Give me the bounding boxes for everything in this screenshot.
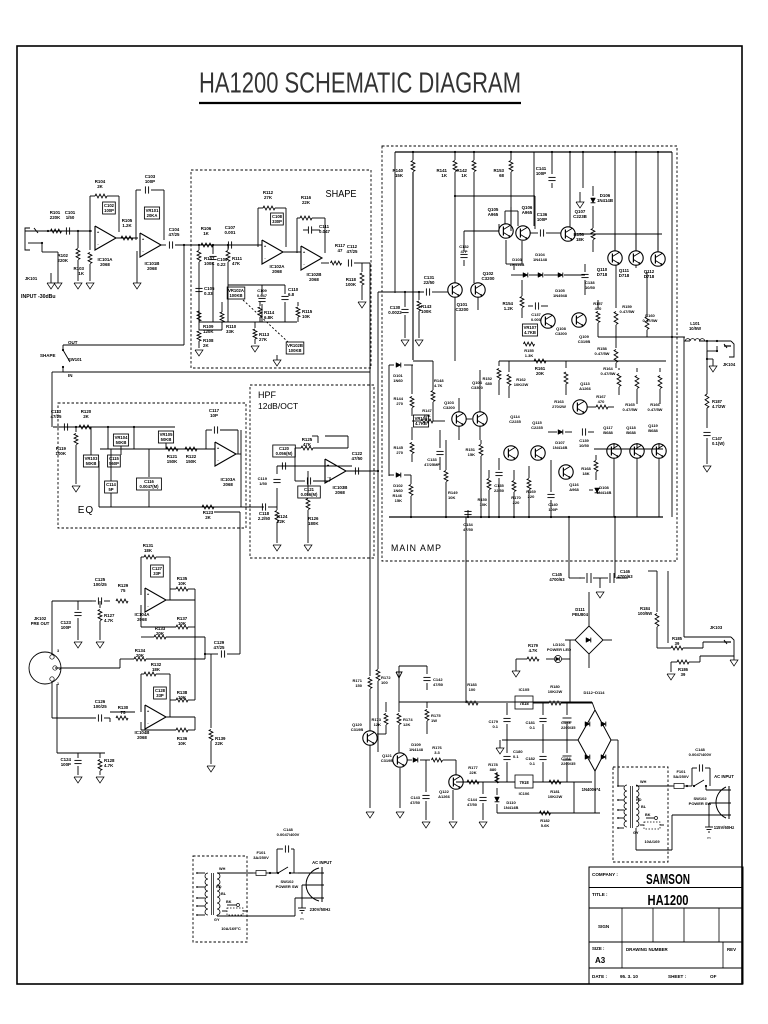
capacitor C146 4700/63 xyxy=(609,573,611,583)
wire xyxy=(465,517,467,703)
transistor Q101 C3200 xyxy=(448,283,462,297)
potentiometer VR106 4.7KB xyxy=(413,415,428,427)
ground xyxy=(133,283,141,289)
svg-text:0.47/5W: 0.47/5W xyxy=(623,407,638,412)
svg-text:2K: 2K xyxy=(97,184,103,189)
diode D105 1N4148 xyxy=(558,273,563,278)
svg-text:22K: 22K xyxy=(215,741,224,746)
bridge rectifier 1N4006*4 xyxy=(578,710,611,771)
svg-text:1N414B: 1N414B xyxy=(510,262,525,267)
svg-text:47/50: 47/50 xyxy=(463,527,474,532)
wire xyxy=(321,262,329,264)
capacitor C111 0.047 xyxy=(307,226,309,233)
svg-text:AC INPUT: AC INPUT xyxy=(714,774,734,779)
svg-text:2200/35: 2200/35 xyxy=(561,761,576,766)
wire xyxy=(161,244,166,246)
transistor Q107 C223B xyxy=(561,227,575,241)
resistor R120 2K xyxy=(79,425,91,429)
svg-text:BK: BK xyxy=(645,813,651,817)
svg-text:5A/250V: 5A/250V xyxy=(673,774,689,779)
title block row company SAMSON xyxy=(589,887,743,889)
svg-text:TITLE :: TITLE : xyxy=(592,892,608,897)
capacitor C122 47/50 xyxy=(354,467,356,474)
svg-text:C223B: C223B xyxy=(573,214,587,219)
svg-text:15K: 15K xyxy=(468,452,475,457)
resistor R143 100K xyxy=(418,292,420,300)
svg-text:HPF: HPF xyxy=(258,390,277,400)
svg-text:220K: 220K xyxy=(58,258,69,263)
resistor R159 0.47/5W xyxy=(615,265,617,308)
svg-text:47P: 47P xyxy=(460,249,467,254)
wire xyxy=(48,230,92,232)
svg-text:A965: A965 xyxy=(522,210,533,215)
svg-text:47/25MF: 47/25MF xyxy=(424,462,440,467)
svg-text:3: 3 xyxy=(57,649,59,653)
svg-text:A1266: A1266 xyxy=(579,386,592,391)
svg-text:0.47/5W: 0.47/5W xyxy=(643,318,658,323)
transistor Q116 A968 xyxy=(559,465,573,479)
svg-text:SIGN: SIGN xyxy=(598,924,610,929)
svg-text:A968: A968 xyxy=(569,487,579,492)
svg-text:4.7K: 4.7K xyxy=(104,618,114,623)
capacitor C132 47P xyxy=(460,253,467,255)
svg-text:0.0047/400V: 0.0047/400V xyxy=(277,832,300,837)
ground xyxy=(74,642,82,648)
ground xyxy=(730,660,738,666)
svg-text:C3200: C3200 xyxy=(456,307,469,312)
svg-text:100/5W: 100/5W xyxy=(638,611,652,616)
resistor R129 75 xyxy=(116,599,128,603)
resistor R132 18K feedback xyxy=(140,674,142,712)
svg-text:1N4148: 1N4148 xyxy=(409,747,424,752)
capacitor C107 0.001 xyxy=(227,241,229,248)
resistor R107 100K xyxy=(198,245,200,250)
capacitor C110 6.8 xyxy=(284,285,286,294)
svg-text:22/50: 22/50 xyxy=(494,488,505,493)
ground xyxy=(273,360,281,366)
wire xyxy=(98,461,100,507)
svg-text:SW101: SW101 xyxy=(68,357,82,362)
svg-text:10/50: 10/50 xyxy=(585,285,596,290)
svg-text:1/50: 1/50 xyxy=(66,215,75,220)
svg-text:270/2W: 270/2W xyxy=(552,404,566,409)
svg-text:POWER SW: POWER SW xyxy=(689,801,712,806)
svg-text:27K: 27K xyxy=(259,337,268,342)
op-amp IC102A 2068 xyxy=(262,240,283,264)
capacitor C101 1/50 xyxy=(65,227,67,234)
svg-text:RD: RD xyxy=(216,885,222,889)
resistor R121 150K xyxy=(166,447,178,451)
svg-text:20K: 20K xyxy=(136,653,145,658)
svg-text:3.3: 3.3 xyxy=(434,750,440,755)
ground xyxy=(479,822,487,828)
svg-text:10/5W: 10/5W xyxy=(689,326,701,331)
svg-text:6.8: 6.8 xyxy=(288,292,295,297)
resistor R105 1.2K xyxy=(121,236,133,240)
svg-text:D718: D718 xyxy=(644,274,655,279)
resistor R142 1K xyxy=(473,152,475,160)
svg-text:0.33: 0.33 xyxy=(204,291,213,296)
resistor R127 4.7K xyxy=(99,601,101,608)
svg-text:10K/2W: 10K/2W xyxy=(548,689,563,694)
resistor R136 10K xyxy=(176,728,188,732)
capacitor C116 0.0047(M) xyxy=(137,478,162,490)
wire xyxy=(614,152,616,251)
svg-text:115V/60Hz: 115V/60Hz xyxy=(714,825,735,830)
ground xyxy=(512,671,520,677)
resistor R181 10K/2W xyxy=(549,780,561,784)
jack JK103 xyxy=(729,637,734,656)
wire xyxy=(671,152,673,517)
svg-text:BL: BL xyxy=(641,805,647,809)
svg-text:4.7K: 4.7K xyxy=(529,648,538,653)
transistor Q112 D718 xyxy=(651,252,665,266)
resistor R158 0.47/5W xyxy=(615,337,617,348)
wire xyxy=(667,571,669,643)
op-amp IC101B 2068 xyxy=(140,233,161,257)
svg-text:A3: A3 xyxy=(595,956,606,965)
transistor Q115 C2235 xyxy=(531,446,545,460)
title block row size / drawing number / rev xyxy=(589,967,743,969)
title block row sign xyxy=(589,941,743,943)
wire xyxy=(110,449,112,481)
svg-text:2068: 2068 xyxy=(100,262,110,267)
svg-text:AC INPUT: AC INPUT xyxy=(312,860,332,865)
op-amp IC103B 2068 xyxy=(325,459,346,483)
svg-text:880: 880 xyxy=(490,767,497,772)
resistor R133 20K xyxy=(154,635,166,639)
resistor R148 4.7K xyxy=(432,361,434,390)
svg-text:47/50: 47/50 xyxy=(352,456,364,461)
svg-text:0.47/5W: 0.47/5W xyxy=(620,309,635,314)
ground xyxy=(86,283,94,289)
capacitor C145 4700/63 xyxy=(579,577,585,579)
transistor Q111 D718 xyxy=(629,251,643,265)
svg-text:A1266: A1266 xyxy=(438,794,451,799)
svg-text:22K: 22K xyxy=(469,770,476,775)
svg-text:INPUT -30dBu: INPUT -30dBu xyxy=(21,294,56,300)
capacitor C182 0.1 xyxy=(542,740,544,753)
MAIN AMP block box xyxy=(382,146,677,561)
svg-text:2K: 2K xyxy=(83,414,89,419)
capacitor C108 330P xyxy=(271,213,284,225)
svg-text:75: 75 xyxy=(121,710,126,715)
resistor R186 39 xyxy=(677,660,689,664)
wire 18V rail xyxy=(399,701,592,703)
wire xyxy=(51,681,53,718)
wire xyxy=(107,427,109,449)
svg-text:C3200: C3200 xyxy=(482,276,495,281)
resistor R166 0.47/5W xyxy=(659,368,661,372)
svg-text:7918: 7918 xyxy=(519,780,529,785)
wire xyxy=(394,152,396,293)
svg-text:0.47/5W: 0.47/5W xyxy=(648,407,663,412)
transistor Q110 D718 xyxy=(608,251,622,265)
svg-text:12K: 12K xyxy=(403,722,410,727)
resistor R156 18K xyxy=(592,226,594,228)
svg-text:1N4006*4: 1N4006*4 xyxy=(582,787,601,792)
capacitor C131 22/50 xyxy=(425,288,427,295)
junction dots xyxy=(412,151,414,153)
wire 0V mid rail xyxy=(502,739,578,741)
wire xyxy=(369,745,371,808)
wire xyxy=(63,371,370,373)
svg-text:HA1200: HA1200 xyxy=(648,892,689,909)
transistor Q117 B688 xyxy=(607,444,621,458)
capacitor C125 100/25 xyxy=(97,597,99,604)
capacitor C114 5P xyxy=(105,481,118,493)
ground xyxy=(596,592,604,598)
svg-text:C3200: C3200 xyxy=(443,405,456,410)
svg-text:15K: 15K xyxy=(395,498,402,503)
resistor R128 4.7K xyxy=(99,753,101,758)
capacitor C123 100P xyxy=(77,601,79,610)
wire xyxy=(217,872,253,874)
svg-text:100KB: 100KB xyxy=(229,293,242,298)
arrow test point xyxy=(576,202,584,208)
op-amp IC103A 2068 xyxy=(215,442,236,466)
resistor R146 15K xyxy=(410,475,412,484)
svg-text:4700/63: 4700/63 xyxy=(549,577,565,582)
ground mains chassis xyxy=(708,803,710,827)
ground xyxy=(74,283,82,289)
svg-text:1W: 1W xyxy=(431,718,437,723)
svg-text:B688: B688 xyxy=(626,430,636,435)
capacitor C138 10/50 xyxy=(584,264,586,272)
svg-text:33P: 33P xyxy=(156,693,164,698)
capacitor C113 47/25 xyxy=(63,423,65,430)
SHAPE block box xyxy=(191,170,371,368)
svg-text:230V/50Hz: 230V/50Hz xyxy=(310,907,331,912)
capacitor C133 47/25MF xyxy=(439,430,441,448)
svg-text:100P: 100P xyxy=(537,217,547,222)
svg-text:1N414B: 1N414B xyxy=(597,198,613,203)
svg-text:10K/2W: 10K/2W xyxy=(514,382,529,387)
resistor R178 880 xyxy=(496,772,498,782)
svg-text:D112~D114: D112~D114 xyxy=(583,690,605,695)
resistor R117 47 xyxy=(331,261,342,265)
wire xyxy=(277,465,352,467)
wire xyxy=(672,336,684,338)
svg-text:10K: 10K xyxy=(448,495,455,500)
wire xyxy=(196,244,262,246)
capacitor C130 0.0022 input xyxy=(378,291,424,293)
svg-text:SHAPE: SHAPE xyxy=(326,188,357,200)
diode D103 1N414B xyxy=(523,273,528,278)
svg-text:OUT: OUT xyxy=(68,340,78,345)
svg-text:MAIN AMP: MAIN AMP xyxy=(391,543,442,553)
wire xyxy=(268,506,277,508)
svg-text:10K: 10K xyxy=(480,502,487,507)
diode D101 1N60 xyxy=(389,364,394,366)
resistor R101 220K xyxy=(51,229,62,233)
wire xyxy=(116,237,138,239)
svg-text:75: 75 xyxy=(121,588,126,593)
potentiometer VR107 4.7KB xyxy=(522,324,537,336)
transistor Q105 A965 xyxy=(499,224,513,238)
capacitor C181 0.1 xyxy=(542,703,544,715)
svg-text:47/25: 47/25 xyxy=(51,414,63,419)
capacitor C121 0.056(M) xyxy=(298,486,321,498)
transistor Q109 C319B xyxy=(572,313,586,327)
svg-text:IN: IN xyxy=(68,373,73,378)
svg-text:22K: 22K xyxy=(302,200,311,205)
EQ block box xyxy=(58,403,246,528)
resistor R131 18K feedback xyxy=(140,557,142,595)
svg-text:4.7KB: 4.7KB xyxy=(415,421,427,426)
resistor R141 1K xyxy=(454,152,456,160)
svg-text:100/25: 100/25 xyxy=(93,704,107,709)
svg-text:1N4948: 1N4948 xyxy=(553,293,568,298)
potentiometer VR102A 100KB xyxy=(227,287,245,299)
wire xyxy=(568,517,570,578)
wire bottom rail xyxy=(389,516,663,518)
svg-text:IC106: IC106 xyxy=(519,791,530,796)
ground xyxy=(358,302,366,308)
svg-text:150K: 150K xyxy=(186,459,197,464)
capacitor C109 0.047 xyxy=(261,285,263,296)
capacitor C102 100P xyxy=(103,202,116,214)
svg-text:7818: 7818 xyxy=(519,701,529,706)
wire xyxy=(455,195,535,197)
op-amp IC102B 2068 xyxy=(301,246,322,270)
svg-text:100P: 100P xyxy=(548,507,558,512)
switch SW101 xyxy=(62,345,64,350)
transistor Q120 C319B xyxy=(363,731,377,745)
svg-text:C319B: C319B xyxy=(578,339,591,344)
ground xyxy=(74,777,82,783)
capacitor C140 100P xyxy=(550,460,552,492)
jack JK101 xyxy=(25,228,30,250)
capacitor C106 0.22 xyxy=(212,245,214,254)
svg-text:B688: B688 xyxy=(648,428,658,433)
diode D107 1N414B xyxy=(558,430,563,435)
svg-text:0.047: 0.047 xyxy=(257,293,268,298)
svg-text:COMPANY :: COMPANY : xyxy=(592,872,618,877)
svg-text:47K: 47K xyxy=(303,442,312,447)
title block frame xyxy=(589,867,743,984)
svg-text:47/25: 47/25 xyxy=(347,249,359,254)
resistor R163 270/2W xyxy=(565,361,567,368)
svg-text:18K: 18K xyxy=(144,548,153,553)
capacitor C137 0.001 xyxy=(534,302,536,309)
resistor R134 20K xyxy=(134,657,146,661)
svg-text:100: 100 xyxy=(469,687,476,692)
svg-text:33K: 33K xyxy=(226,329,235,334)
resistor R175 1W xyxy=(426,702,428,708)
svg-text:WH: WH xyxy=(219,867,226,871)
svg-text:39: 39 xyxy=(675,641,680,646)
resistor R115 10K xyxy=(297,302,299,306)
svg-text:10K: 10K xyxy=(178,741,187,746)
wire xyxy=(235,453,241,455)
capacitor C142 47/50 xyxy=(399,665,427,667)
regulator IC106 7918 xyxy=(515,775,533,788)
svg-text:95. 3. 10: 95. 3. 10 xyxy=(620,974,638,979)
svg-text:4.7/2W: 4.7/2W xyxy=(712,404,725,409)
ground xyxy=(366,812,374,818)
transformer T101 core xyxy=(211,873,213,915)
wire xyxy=(294,466,296,481)
ground xyxy=(703,466,711,472)
svg-text:0.001: 0.001 xyxy=(531,317,542,322)
ground xyxy=(273,545,281,551)
svg-text:100K: 100K xyxy=(346,282,357,287)
svg-text:BK: BK xyxy=(226,900,232,904)
wire xyxy=(175,244,196,246)
diode D102 1N60 xyxy=(389,474,394,476)
svg-text:68: 68 xyxy=(499,173,504,178)
wire xyxy=(99,506,264,508)
svg-text:10K/2W: 10K/2W xyxy=(548,794,563,799)
svg-text:18K: 18K xyxy=(582,471,589,476)
svg-text:0.47/5W: 0.47/5W xyxy=(601,371,616,376)
resistor R161 20K xyxy=(534,359,546,363)
wire xyxy=(100,426,175,428)
svg-text:1.2K: 1.2K xyxy=(122,223,132,228)
wire xyxy=(635,828,637,850)
svg-text:22/50: 22/50 xyxy=(424,280,436,285)
svg-text:1N414B: 1N414B xyxy=(597,490,612,495)
svg-text:1.3K: 1.3K xyxy=(525,353,534,358)
svg-text:POWER SW: POWER SW xyxy=(276,884,299,889)
resistor R177 22K xyxy=(467,780,479,784)
resistor R137 10K xyxy=(140,605,142,627)
resistor R187 4.7/2W xyxy=(705,394,709,408)
svg-text:GY: GY xyxy=(214,918,220,922)
wire xyxy=(510,224,512,231)
resistor R113 27K xyxy=(254,322,256,328)
ground xyxy=(709,366,717,372)
svg-text:m: m xyxy=(707,836,710,840)
svg-text:1.2K: 1.2K xyxy=(504,306,514,311)
transformer T101 primary xyxy=(205,873,208,915)
resistor R145 270 xyxy=(411,427,413,440)
svg-text:220: 220 xyxy=(513,500,520,505)
ground xyxy=(207,766,215,772)
capacitor C143 47/50 xyxy=(425,760,427,792)
wire rail mid xyxy=(499,360,666,362)
resistor R172 100 xyxy=(377,292,379,669)
diode D110 1N414B xyxy=(496,788,498,795)
transformer T101 box (230V) xyxy=(193,856,247,942)
svg-text:10A/169°C: 10A/169°C xyxy=(221,926,241,931)
svg-text:100P: 100P xyxy=(61,625,71,630)
svg-text:100/25: 100/25 xyxy=(93,582,107,587)
resistor R139 22K xyxy=(204,637,206,659)
ground mains chassis xyxy=(301,885,303,908)
svg-text:SHAPE: SHAPE xyxy=(40,353,56,358)
ground xyxy=(47,283,55,289)
potentiometer VR105 50KB xyxy=(158,431,173,443)
svg-text:WH: WH xyxy=(640,780,647,784)
ground xyxy=(195,350,203,356)
resistor R118 100K xyxy=(361,263,363,272)
capacitor C126 100/25 xyxy=(97,714,99,721)
svg-text:5P: 5P xyxy=(108,487,113,492)
resistor R149 10K xyxy=(445,440,447,470)
wire xyxy=(636,785,672,787)
svg-text:0.1: 0.1 xyxy=(529,761,535,766)
capacitor C105 0.33 xyxy=(195,287,202,289)
resistor R182 5.6K xyxy=(540,811,551,815)
svg-text:B688: B688 xyxy=(603,430,613,435)
resistor R138 10K xyxy=(176,698,188,702)
ground xyxy=(72,486,80,492)
wire xyxy=(533,152,535,226)
svg-text:47/50: 47/50 xyxy=(433,682,444,687)
capacitor C124 100P xyxy=(56,684,58,753)
